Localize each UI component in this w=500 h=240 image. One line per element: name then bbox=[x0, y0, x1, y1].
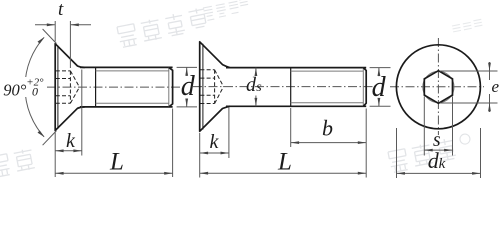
svg-text:L: L bbox=[109, 149, 124, 176]
svg-text:0: 0 bbox=[32, 85, 38, 99]
left screw head inner face line bbox=[57, 46, 59, 129]
socket clearance circle bbox=[423, 71, 454, 102]
middle screw thread start line bbox=[290, 68, 292, 107]
t dimension bbox=[35, 21, 91, 68]
horizontal centerline bbox=[390, 86, 484, 88]
svg-text:t: t bbox=[58, 0, 64, 20]
hex socket bbox=[424, 71, 452, 104]
d dimension middle screw bbox=[370, 68, 391, 107]
s dimension bbox=[424, 97, 452, 156]
centerline middle screw bbox=[193, 86, 374, 88]
k dimension middle screw bbox=[200, 108, 229, 159]
svg-text:e: e bbox=[492, 77, 500, 96]
middle screw hex socket hidden lines bbox=[200, 70, 223, 104]
middle screw shank lines bbox=[226, 67, 366, 69]
90 degree cone extension lines bbox=[43, 29, 57, 44]
left screw hex socket hidden lines bbox=[56, 71, 80, 103]
vertical centerline bbox=[437, 38, 439, 135]
middle screw tip chamfer line bbox=[362, 68, 364, 107]
svg-text:d: d bbox=[372, 72, 387, 103]
dk dimension bbox=[397, 128, 481, 178]
left screw thread start line bbox=[95, 67, 97, 107]
svg-text:L: L bbox=[277, 149, 292, 176]
L dimension left screw bbox=[55, 109, 172, 178]
ds dimension bbox=[255, 68, 257, 107]
centerline left screw bbox=[47, 86, 181, 88]
left screw head outline bbox=[55, 44, 84, 131]
90 degree arc bbox=[25, 37, 44, 136]
e dimension bbox=[440, 62, 498, 112]
svg-text:90°: 90° bbox=[3, 81, 27, 100]
middle screw thread minor diameter lines bbox=[291, 70, 364, 72]
left screw tip chamfer line bbox=[168, 67, 170, 107]
L dimension middle screw bbox=[200, 109, 367, 178]
white backing for 90 text bbox=[2, 77, 46, 97]
k dimension left screw bbox=[55, 70, 82, 178]
svg-text:k: k bbox=[210, 131, 220, 153]
watermark tiles bbox=[0, 0, 483, 178]
left screw shank major diameter lines bbox=[80, 66, 173, 68]
d dimension left screw bbox=[177, 67, 197, 107]
left screw thread minor diameter lines bbox=[96, 70, 169, 72]
svg-text:k: k bbox=[66, 130, 76, 152]
head outer circle dk bbox=[396, 45, 480, 129]
middle screw head outline bbox=[200, 42, 230, 132]
svg-text:k: k bbox=[439, 156, 446, 172]
svg-text:s: s bbox=[256, 80, 262, 95]
left screw tip face and chamfer edges bbox=[169, 67, 173, 107]
middle screw head inner face line bbox=[202, 44, 204, 130]
middle screw tip face and chamfer edges bbox=[363, 68, 366, 107]
svg-text:b: b bbox=[322, 116, 333, 141]
b dimension bbox=[291, 108, 367, 147]
